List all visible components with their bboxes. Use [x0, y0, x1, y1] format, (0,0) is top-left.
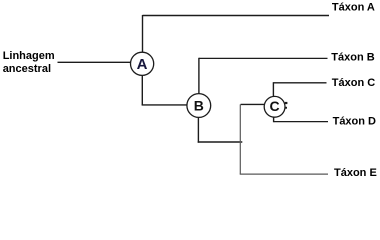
wire: node C right stub	[285, 102, 288, 104]
svg-text:Táxon A: Táxon A	[332, 1, 375, 13]
wire: horizontal from A branch to node B	[142, 104, 187, 106]
node A circle	[131, 52, 154, 75]
svg-text:Táxon C: Táxon C	[332, 77, 375, 89]
svg-text:A: A	[137, 56, 148, 73]
wire: node A top vertical	[142, 15, 144, 53]
wire: branch to Taxon A (horizontal)	[143, 15, 330, 17]
svg-text:ancestral: ancestral	[3, 63, 51, 75]
svg-text:C: C	[270, 98, 280, 114]
wire: node C top vertical	[272, 82, 274, 97]
wire: node B bottom vertical	[197, 118, 199, 143]
node B circle	[187, 94, 211, 118]
node C circle	[264, 96, 285, 117]
wire: node B bottom horizontal to junction	[198, 141, 243, 143]
wire: root lineage horizontal into node A	[58, 61, 131, 63]
wire: node A bottom vertical	[141, 76, 143, 105]
svg-text:B: B	[194, 98, 204, 114]
wire: node C bottom vertical	[273, 117, 275, 122]
wire: junction horizontal to node C	[241, 103, 265, 105]
svg-text:Linhagem: Linhagem	[3, 50, 55, 62]
wire: branch to Taxon B (horizontal)	[199, 57, 328, 59]
wire: junction vertical (C subtree and Taxon E)	[239, 104, 241, 174]
wire: node B top vertical	[198, 58, 200, 94]
wire: branch to Taxon D (horizontal)	[274, 121, 328, 123]
wire: branch to Taxon C (horizontal)	[273, 82, 326, 84]
svg-text:Táxon D: Táxon D	[333, 115, 376, 127]
svg-text:Táxon E: Táxon E	[334, 167, 377, 179]
wire: branch to Taxon E (horizontal)	[240, 173, 328, 175]
svg-text:Táxon B: Táxon B	[331, 52, 374, 64]
wire: node C right lower nub	[285, 107, 287, 109]
